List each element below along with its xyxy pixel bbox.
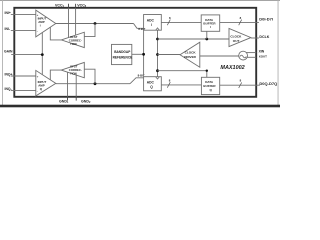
svg-text:REFERENCE: REFERENCE	[113, 56, 133, 60]
wire bandgap to reference node	[132, 53, 144, 55]
frame bottom band	[0, 105, 280, 108]
node data buffer I clock junction	[205, 38, 208, 41]
pin VCC2	[76, 3, 87, 8]
node clock branch bottom	[156, 69, 159, 72]
bus slash data buffer Q	[239, 82, 242, 88]
svg-text:BUFFER: BUFFER	[203, 84, 216, 88]
svg-text:INI-: INI-	[5, 27, 10, 31]
pin VCC1	[55, 3, 69, 8]
wire ADC Q output bus	[161, 84, 201, 86]
wire XIN stub	[246, 52, 256, 54]
ADC Q clock wedge	[156, 77, 160, 79]
svg-text:CLOCK: CLOCK	[185, 50, 197, 54]
node clock branch top	[156, 38, 159, 41]
wire amp I output	[56, 23, 134, 25]
node data buffer Q clock corner	[206, 70, 208, 72]
svg-text:-: -	[37, 29, 38, 33]
svg-text:BANDGAP: BANDGAP	[114, 50, 131, 54]
svg-text:-: -	[37, 89, 38, 93]
svg-text:AMP: AMP	[38, 20, 44, 24]
svg-text:ADC: ADC	[147, 19, 155, 23]
bus slash ADC I	[167, 20, 170, 26]
wire GND2 internal	[75, 75, 77, 97]
pin GND1	[59, 96, 69, 104]
svg-text:DRIVER: DRIVER	[184, 55, 196, 59]
wire clock to data buffer I	[206, 31, 208, 39]
node clock driver output junction	[156, 53, 159, 56]
svg-text:TION: TION	[70, 42, 77, 46]
svg-text:DATA: DATA	[205, 80, 214, 84]
svg-text:MAX1002: MAX1002	[220, 65, 244, 71]
node gain junction	[41, 53, 44, 56]
wire offset I output to amp	[50, 27, 61, 40]
wire offset Q input from output line	[84, 69, 95, 84]
node amp Q output junction	[94, 82, 97, 85]
clock driver amp	[180, 42, 200, 67]
svg-text:+: +	[37, 75, 39, 79]
wire clock vertical	[157, 30, 159, 76]
pin INQ+	[5, 73, 36, 77]
input amp Q	[36, 70, 56, 96]
wire offset I input from output line	[84, 24, 95, 37]
data buffer I box	[201, 15, 220, 31]
svg-text:INI+: INI+	[5, 11, 11, 15]
svg-text:XOUT: XOUT	[259, 55, 267, 59]
bus slash data buffer I	[239, 20, 242, 26]
wire clock branch to data buffer Q	[158, 71, 207, 78]
input amp I	[36, 10, 56, 37]
frame top line	[0, 0, 280, 2]
wire GND1 internal	[67, 72, 69, 97]
clock out amp	[229, 28, 251, 46]
svg-text:CLOCK: CLOCK	[230, 35, 242, 39]
node reference junction	[142, 53, 145, 56]
svg-text:INQ-: INQ-	[5, 87, 12, 91]
wire XOUT stub	[247, 56, 256, 58]
wire offset Q output to amp	[50, 70, 61, 80]
svg-text:ADC: ADC	[147, 80, 155, 84]
ADC I clock wedge	[156, 28, 160, 30]
node amp I output junction	[94, 22, 97, 25]
pin GAIN	[4, 50, 42, 55]
wire data buffer Q output bus	[220, 84, 260, 86]
offset correction Q amp	[61, 62, 84, 77]
pin GND2	[76, 96, 91, 104]
wire jog into ADC I	[134, 24, 144, 29]
wire oscillator to clock driver	[200, 55, 239, 57]
svg-text:Q: Q	[150, 85, 153, 89]
IC package outline	[14, 8, 256, 97]
wire VCC1 internal	[68, 8, 70, 38]
wire jog into ADC Q	[130, 78, 144, 84]
wire clock branch to clock out	[158, 38, 230, 40]
wire clock driver output	[158, 54, 181, 56]
frame left line	[1, 0, 4, 105]
bus slash ADC Q	[167, 82, 170, 88]
pin INI+	[5, 11, 36, 15]
svg-text:XIN: XIN	[259, 49, 265, 53]
oscillator U1	[239, 51, 248, 60]
svg-text:OUT: OUT	[233, 39, 240, 43]
svg-text:DCLK: DCLK	[259, 35, 269, 39]
pin INQ-	[5, 87, 36, 91]
wire data buffer I output bus	[220, 21, 259, 23]
wire VCC2 internal	[75, 8, 77, 35]
bandgap reference box	[112, 44, 133, 64]
pin INI-	[5, 27, 36, 31]
ADC I box	[144, 15, 162, 31]
svg-text:+: +	[37, 13, 39, 17]
frame right line	[277, 0, 280, 105]
wire reference distribution	[143, 30, 145, 76]
svg-text:D0Q-D7Q: D0Q-D7Q	[259, 81, 277, 86]
svg-text:GAIN: GAIN	[4, 50, 13, 54]
offset correction I amp	[61, 32, 84, 47]
svg-text:D0I-D7I: D0I-D7I	[259, 17, 273, 22]
wire gain distribution	[41, 33, 43, 75]
svg-text:I: I	[151, 23, 152, 27]
wire amp Q output	[56, 83, 130, 85]
ADC Q box	[144, 77, 162, 91]
data buffer Q box	[201, 77, 219, 94]
svg-text:TION: TION	[70, 72, 77, 76]
wire DCLK output	[251, 37, 259, 39]
wire ADC I output bus	[161, 21, 201, 23]
